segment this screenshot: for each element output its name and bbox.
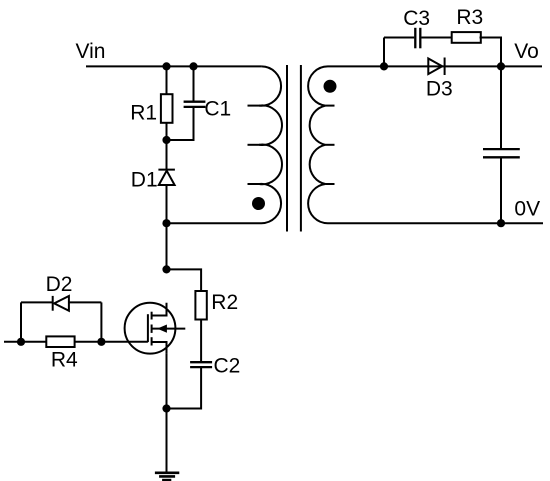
wire output cap to 0V rail bbox=[500, 157, 502, 223]
MOSFET Q1 arrow head bbox=[157, 325, 167, 333]
MOSFET Q1 channel segment middle bbox=[151, 325, 153, 333]
svg-text:R3: R3 bbox=[456, 6, 483, 29]
MOSFET Q1 drain tap bbox=[152, 303, 167, 316]
wire C2 bottom to node bbox=[167, 367, 202, 408]
junction node R1/C1 bottom bbox=[162, 136, 170, 144]
capacitor C2 bbox=[190, 361, 212, 363]
junction node top rail at C1 bbox=[189, 62, 197, 70]
wire D2 branch top left bbox=[21, 301, 53, 303]
wire R1 bottom to node bbox=[166, 122, 168, 140]
resistor R3 bbox=[452, 32, 481, 43]
wire primary winding outline bbox=[167, 66, 282, 223]
resistor R4 bbox=[46, 336, 74, 347]
MOSFET Q1 channel segment bottom bbox=[151, 337, 153, 345]
MOSFET Q1 body arrow line bbox=[152, 328, 186, 330]
wire Vo node drop to output cap bbox=[500, 66, 502, 149]
junction node 0V bbox=[497, 219, 505, 227]
wire gate rail bbox=[4, 341, 148, 343]
junction node top rail at R1 bbox=[162, 62, 170, 70]
svg-text:C3: C3 bbox=[403, 7, 430, 30]
polarity dot primary bbox=[252, 197, 265, 210]
wire secondary snubber riser bbox=[383, 38, 385, 67]
svg-text:C2: C2 bbox=[214, 354, 241, 377]
junction node Vo bbox=[497, 62, 505, 70]
wire node to D1 bbox=[166, 140, 168, 170]
wire ground drop bbox=[166, 409, 168, 472]
wire R3 to Vo node bbox=[480, 38, 502, 67]
svg-text:R2: R2 bbox=[211, 291, 238, 314]
capacitor C3 bbox=[414, 28, 416, 49]
svg-text:Vin: Vin bbox=[76, 40, 106, 63]
wire D2 branch right riser bbox=[100, 302, 102, 341]
secondary winding tick 3 bbox=[325, 183, 334, 185]
svg-text:R1: R1 bbox=[130, 101, 157, 124]
wire snubber to C3 bbox=[384, 37, 414, 39]
wire C3 to R3 bbox=[421, 37, 453, 39]
polarity dot secondary bbox=[324, 80, 337, 93]
svg-text:R4: R4 bbox=[51, 348, 78, 371]
junction node gate rail right bbox=[97, 338, 105, 346]
MOSFET Q1 gate plate bbox=[147, 314, 149, 342]
wire D1 to primary bottom node bbox=[166, 185, 168, 270]
wire D2 branch top right bbox=[69, 301, 102, 303]
wire C1 bottom to node bbox=[167, 107, 194, 140]
primary winding tick 2 bbox=[248, 144, 261, 146]
MOSFET Q1 channel segment top bbox=[151, 312, 153, 320]
capacitor C1 bbox=[184, 101, 206, 103]
secondary winding tick 2 bbox=[325, 144, 334, 146]
junction node gate rail left bbox=[17, 338, 25, 346]
diode D3 bbox=[428, 59, 442, 75]
svg-text:D2: D2 bbox=[46, 273, 73, 296]
wire secondary winding outline bbox=[308, 66, 543, 223]
MOSFET Q1 body circle bbox=[125, 303, 176, 354]
diode D2 bbox=[54, 296, 69, 311]
junction node R2 branch bbox=[162, 265, 170, 273]
primary winding tick 3 bbox=[248, 183, 261, 185]
resistor R1 bbox=[161, 94, 173, 123]
svg-text:D1: D1 bbox=[131, 169, 158, 192]
secondary winding tick 1 bbox=[325, 105, 334, 107]
resistor R2 bbox=[195, 291, 206, 320]
junction node C2 branch bbox=[162, 404, 170, 412]
wire R2 to C2 bbox=[200, 319, 202, 363]
junction node primary bottom bbox=[162, 219, 170, 227]
svg-text:0V: 0V bbox=[514, 197, 540, 220]
MOSFET Q1 source tap bbox=[152, 342, 167, 354]
wire C1 drop from top rail bbox=[193, 66, 195, 101]
svg-text:C1: C1 bbox=[204, 97, 231, 120]
primary winding tick 1 bbox=[248, 105, 261, 107]
wire R1 drop from top rail bbox=[166, 66, 168, 95]
capacitor Cout bbox=[483, 148, 520, 150]
wire Vin top rail bbox=[86, 65, 261, 67]
svg-text:Vo: Vo bbox=[514, 40, 539, 63]
junction node snubber tap bbox=[380, 62, 388, 70]
wire source to ground node bbox=[166, 354, 168, 409]
diode D1 bbox=[159, 171, 175, 185]
svg-text:D3: D3 bbox=[426, 77, 453, 100]
wire R2 branch top bbox=[167, 269, 202, 292]
wire D2 branch left riser bbox=[20, 302, 22, 341]
ground symbol bbox=[155, 471, 179, 474]
transformer core line right bbox=[300, 65, 302, 232]
transformer core line left bbox=[286, 65, 288, 232]
